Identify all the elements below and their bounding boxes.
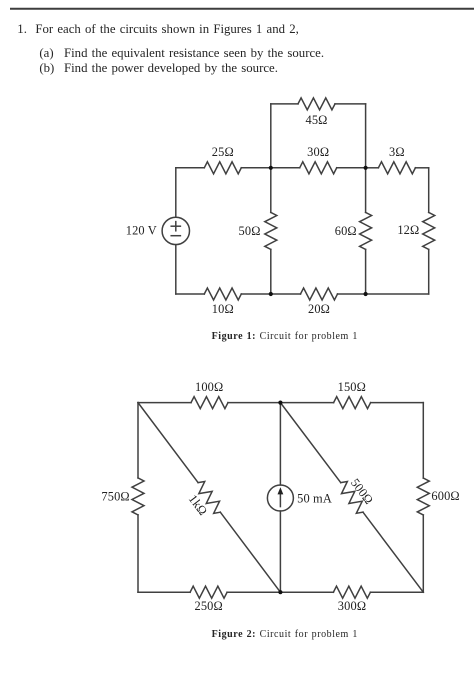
- resistor 750: [132, 478, 144, 515]
- svg-text:Find the equivalent resistance: Find the equivalent resistance seen by t…: [64, 46, 324, 60]
- svg-text:25Ω: 25Ω: [212, 145, 234, 159]
- svg-text:45Ω: 45Ω: [305, 113, 327, 127]
- svg-text:60Ω: 60Ω: [335, 224, 357, 238]
- wire bottom rail right: [366, 293, 429, 295]
- wire fig2 left column bottom: [137, 515, 139, 592]
- node bottom rail left junction: [269, 292, 273, 296]
- wire right column top: [428, 168, 430, 213]
- wire diagonal 500 lower segment: [363, 512, 423, 592]
- svg-text:150Ω: 150Ω: [338, 380, 366, 394]
- resistor 500: [341, 481, 363, 513]
- svg-text:120 V: 120 V: [126, 224, 157, 238]
- wire bottom rail left: [176, 293, 205, 295]
- svg-text:(a): (a): [39, 46, 53, 60]
- node bottom rail right junction: [364, 292, 368, 296]
- node fig2 top middle junction: [278, 401, 282, 405]
- resistor 250: [190, 586, 227, 598]
- svg-text:Figure 2: Circuit for problem: Figure 2: Circuit for problem 1: [212, 629, 358, 640]
- resistor 12: [423, 212, 435, 249]
- resistor 150: [334, 397, 371, 409]
- svg-text:100Ω: 100Ω: [195, 380, 223, 394]
- wire 50-ohm branch top: [270, 168, 272, 213]
- wire bottom rail node2 to 20: [271, 293, 301, 295]
- wire diagonal 1k upper segment: [138, 403, 198, 483]
- wire fig2 bottom rail mid-left: [227, 591, 280, 593]
- wire top rail left: [271, 103, 298, 105]
- resistor 1k: [198, 481, 220, 513]
- wire 50-ohm branch bottom: [270, 249, 272, 294]
- current source 50 mA: [267, 485, 293, 511]
- wire fig2 bottom rail left: [138, 591, 190, 593]
- wire bottom rail 20 to node3: [338, 293, 366, 295]
- node fig2 bottom middle junction: [278, 590, 282, 594]
- wire fig2 right column bottom: [422, 515, 424, 592]
- svg-text:3Ω: 3Ω: [389, 145, 405, 159]
- wire 60-ohm branch bottom: [365, 249, 367, 294]
- wire main rail 3 to right corner: [415, 167, 428, 169]
- wire fig2 top rail left: [138, 402, 191, 404]
- resistor 25: [204, 162, 241, 174]
- resistor 30: [300, 162, 337, 174]
- wire top loop left vertical: [270, 104, 272, 168]
- svg-text:250Ω: 250Ω: [194, 599, 222, 613]
- wire fig2 top rail mid-left: [228, 402, 280, 404]
- svg-text:12Ω: 12Ω: [397, 223, 419, 237]
- wire main rail node3 to 3: [366, 167, 379, 169]
- wire left column bottom (source to bottom rail): [175, 245, 177, 294]
- svg-text:For each of the circuits shown: For each of the circuits shown in Figure…: [35, 22, 298, 36]
- wire right column bottom: [428, 249, 430, 294]
- resistor 100: [191, 397, 228, 409]
- wire left column top (source to main rail): [175, 168, 177, 217]
- resistor 60: [360, 212, 372, 249]
- svg-text:1kΩ: 1kΩ: [186, 492, 210, 518]
- wire bottom rail 10 to node: [241, 293, 270, 295]
- node main rail right junction: [364, 166, 368, 170]
- svg-text:1.: 1.: [17, 22, 27, 36]
- wire diagonal 1k lower segment: [220, 512, 280, 592]
- resistor 300: [333, 586, 370, 598]
- svg-text:300Ω: 300Ω: [338, 599, 366, 613]
- wire main rail 30 to node3: [337, 167, 366, 169]
- svg-text:Find the power developed by th: Find the power developed by the source.: [64, 61, 278, 75]
- svg-text:600Ω: 600Ω: [431, 489, 459, 503]
- wire diagonal 500 upper segment: [280, 403, 340, 483]
- resistor 20: [301, 288, 338, 300]
- resistor 3: [378, 162, 415, 174]
- svg-text:750Ω: 750Ω: [101, 489, 129, 503]
- svg-text:10Ω: 10Ω: [212, 302, 234, 316]
- wire fig2 top rail right: [371, 402, 424, 404]
- wire main rail left: [176, 167, 205, 169]
- wire fig2 bottom rail right: [370, 591, 423, 593]
- resistor 50: [265, 212, 277, 249]
- wire fig2 top rail mid-right: [280, 402, 333, 404]
- header rule: [10, 8, 474, 10]
- wire top rail right: [335, 103, 366, 105]
- wire fig2 middle column top: [279, 403, 281, 485]
- wire top loop right vertical: [365, 104, 367, 168]
- svg-text:50Ω: 50Ω: [239, 224, 261, 238]
- resistor 10: [204, 288, 241, 300]
- wire 60-ohm branch top: [365, 168, 367, 213]
- wire main rail node2 to 30: [271, 167, 300, 169]
- wire fig2 right column top: [422, 403, 424, 478]
- resistor 45: [298, 98, 335, 110]
- resistor 600: [417, 478, 429, 515]
- svg-text:(b): (b): [39, 61, 54, 75]
- wire main rail 25-to-node: [241, 167, 270, 169]
- wire fig2 bottom rail mid-right: [280, 591, 333, 593]
- svg-text:30Ω: 30Ω: [307, 145, 329, 159]
- voltage source 120 V: [162, 217, 189, 244]
- wire fig2 middle column bottom: [279, 511, 281, 592]
- wire fig2 left column top: [137, 403, 139, 478]
- svg-text:50 mA: 50 mA: [297, 491, 332, 505]
- svg-text:20Ω: 20Ω: [308, 302, 330, 316]
- node main rail left junction: [269, 166, 273, 170]
- svg-text:Figure 1: Circuit for problem: Figure 1: Circuit for problem 1: [212, 331, 358, 342]
